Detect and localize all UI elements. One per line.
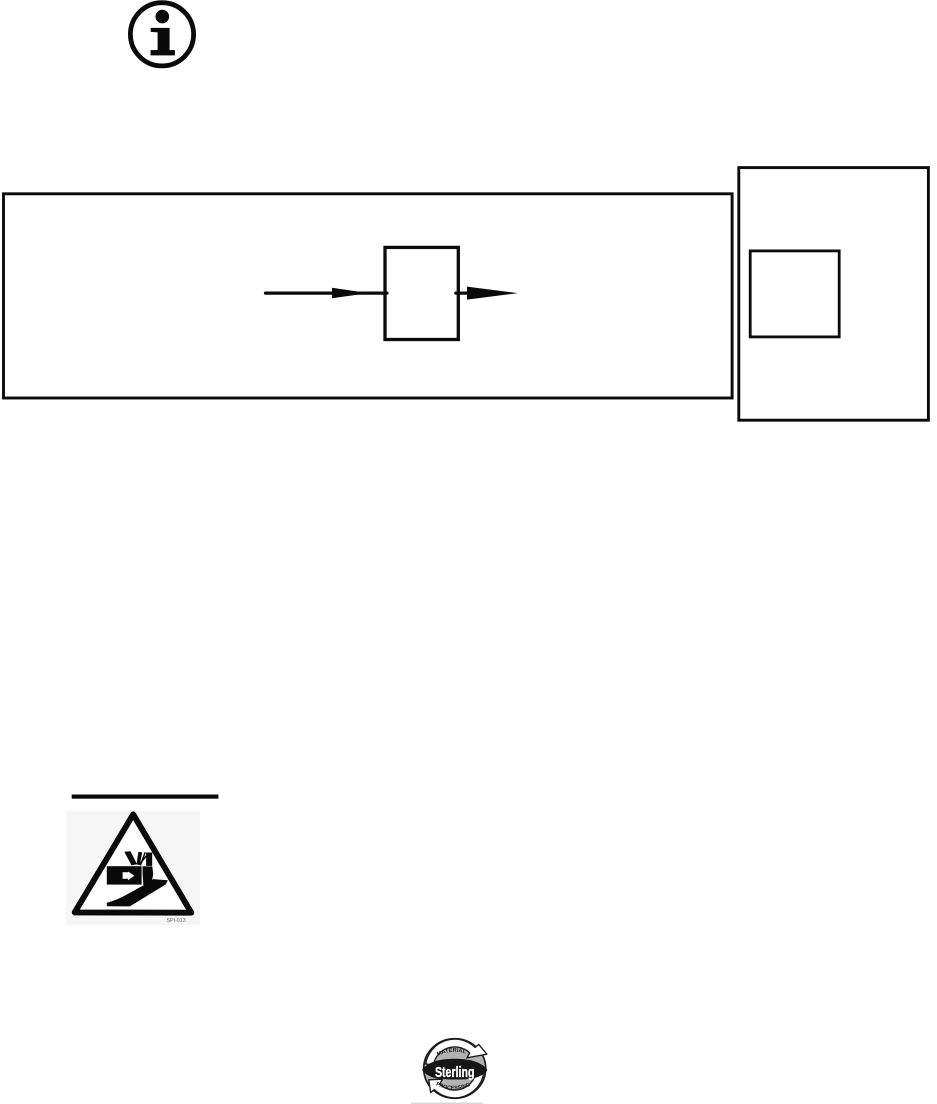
pictogram hand wedge [107, 879, 168, 906]
logo lens [422, 1059, 487, 1080]
info icon i base bar [151, 50, 175, 55]
right arrow line [456, 292, 500, 295]
logo bottom arrow [429, 1072, 484, 1098]
center box [385, 247, 458, 339]
right panel inner square [750, 251, 839, 337]
pictogram knuckle [146, 853, 152, 866]
bottom faint scan line [411, 1103, 483, 1104]
pictogram moving block [107, 866, 142, 884]
logo top arrow [426, 1039, 487, 1065]
info icon i dot [156, 10, 170, 24]
pictogram white arrow [123, 872, 135, 881]
big rectangle [4, 194, 733, 398]
info icon circle [130, 3, 193, 66]
logo text PROCESSING [436, 1085, 472, 1089]
hazard label scan background [66, 811, 200, 925]
pictogram pinched finger strokes [140, 852, 145, 865]
left arrow line [266, 292, 388, 295]
pictogram finger right [137, 852, 143, 865]
horizontal rule above hazard label [72, 795, 219, 799]
info icon i stem [151, 28, 170, 52]
Sterling logo [422, 1039, 487, 1099]
svg-text:SPI-013: SPI-013 [167, 918, 186, 924]
right arrowhead [467, 287, 518, 300]
logo text MATERIAL [438, 1052, 472, 1056]
pictogram finger left [124, 851, 137, 865]
logo disc [424, 1039, 486, 1099]
pictogram palm column [143, 866, 154, 885]
svg-text:Sterling: Sterling [435, 1065, 475, 1081]
svg-text:®: ® [472, 1079, 475, 1083]
left arrowhead [332, 288, 369, 299]
right panel rectangle [739, 168, 929, 421]
pinch-point warning triangle outline [75, 814, 192, 912]
